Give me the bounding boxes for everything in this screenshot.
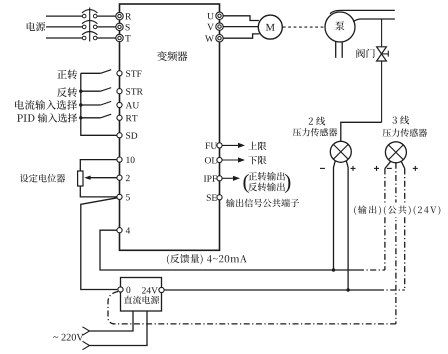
DC supply box 直流电源 [121, 278, 162, 312]
junction dot sensor- [332, 268, 335, 271]
wire 0V dashdot [108, 292, 396, 324]
terminal R [116, 12, 123, 19]
label 输出信号公共端子 [226, 199, 299, 208]
wire 24V line [164, 289, 378, 291]
arrow in L [83, 327, 90, 335]
label 2线 [309, 117, 326, 126]
wire feedback dashdot to B2 [358, 269, 385, 271]
pipe inlet [335, 42, 337, 58]
terminal RT [117, 115, 122, 120]
label 正转输出 [248, 172, 285, 181]
wire 220V L [90, 311, 134, 331]
wire L1 to switch [46, 15, 82, 17]
inverter U1 变频器 box [120, 4, 220, 250]
sign plus B2 right [413, 167, 418, 169]
wire switch to terminal [97, 15, 116, 17]
sign minus B2 [387, 167, 392, 169]
terminal 2 [117, 175, 122, 180]
terminal AU [117, 102, 122, 107]
switch K-RT wire [81, 117, 101, 119]
valve 阀门 body [377, 47, 389, 61]
wire common bus [81, 73, 117, 135]
terminal V [216, 23, 223, 30]
label 电源 [27, 22, 45, 31]
wire valve down [381, 61, 383, 122]
terminal IPF [217, 176, 222, 181]
terminal 4 [117, 228, 122, 233]
terminal 10 [117, 157, 122, 162]
label 上限 [248, 142, 266, 151]
label 输出公共24V [353, 203, 434, 218]
label 压力传感器 left [293, 128, 337, 136]
label 反转输出 [248, 183, 285, 192]
terminal U [216, 12, 223, 19]
terminal W [216, 35, 223, 42]
switch K-AU wire [81, 104, 101, 106]
wire U to motor [223, 16, 259, 21]
wire 220V N [90, 311, 148, 346]
motor M [258, 15, 282, 39]
potentiometer RP [78, 171, 83, 186]
label 电流输入选择 [15, 100, 77, 110]
switch QS 3-pole [82, 8, 97, 42]
wire 24V dashdot to B2 [378, 289, 405, 291]
paren IPF left [243, 174, 248, 193]
label 下限 [248, 156, 266, 164]
sign minus B1 [320, 167, 325, 169]
sensor B2 lead common [395, 163, 397, 324]
wire 4 feedback line [100, 230, 358, 270]
sensor B2 lead out [385, 162, 391, 169]
terminal FU [217, 143, 222, 148]
sensor B2 lead 24V [401, 162, 404, 169]
terminal STR [117, 89, 122, 94]
terminal 5 [117, 194, 122, 199]
terminal S [116, 23, 123, 30]
terminal SE [217, 195, 222, 200]
junction dot sensor+ [346, 288, 349, 291]
label 设定电位器 [20, 174, 65, 183]
terminal STF [117, 71, 122, 76]
switch K-STF blade [101, 70, 112, 74]
junction dot AU [79, 103, 82, 106]
sign plus B1 [351, 167, 356, 169]
wire wiper from 2 [90, 177, 117, 179]
arrow FU [222, 144, 239, 146]
wire switch to terminal [97, 37, 116, 39]
arrow IPF [222, 177, 234, 179]
terminal SD [117, 133, 122, 138]
switch K-RT blade [101, 114, 112, 118]
switch K-AU blade [101, 101, 112, 105]
switch K-STF wire [81, 72, 101, 74]
terminal OL [217, 157, 222, 162]
coupling shaft dashed [283, 26, 325, 28]
wiper arrow [84, 176, 90, 180]
wire V to motor [223, 26, 258, 28]
wire pipe to valve [381, 19, 383, 47]
label 直流电源 [124, 296, 159, 304]
wire pot bottom to 5 [80, 186, 117, 197]
terminal 24V [159, 287, 164, 292]
label 变频器 [157, 51, 187, 61]
junction dot STR [79, 90, 82, 93]
pump 泵 [325, 12, 355, 42]
paren IPF right [285, 174, 290, 193]
sign plus B2 left [374, 167, 379, 169]
sensor B2 3-wire [385, 142, 406, 163]
wire 10 to pot top [80, 160, 117, 171]
junction dot RT [79, 116, 82, 119]
label 反馈量 [167, 254, 247, 264]
label 压力传感器 right [383, 129, 427, 137]
wire W to motor [223, 34, 259, 38]
wire L2 to switch [46, 26, 82, 28]
pipe outlet top [330, 10, 395, 13]
wire to sensor B1 [341, 122, 382, 141]
wire 5 to DC 0V [81, 198, 118, 290]
wire L3 to switch [46, 37, 82, 39]
label 反转 [57, 87, 77, 97]
switch K-STR blade [101, 88, 112, 92]
wire switch to terminal [97, 26, 116, 28]
label PID输入选择 [17, 113, 77, 122]
sensor B1 lead - [334, 161, 336, 270]
sensor B1 lead + [346, 161, 348, 290]
label 220V [53, 334, 83, 341]
sensor B1 2-wire [330, 141, 351, 162]
pipe outlet bottom [353, 19, 395, 22]
label 正转 [57, 70, 77, 80]
terminal T [116, 34, 123, 41]
label 3线 [393, 116, 410, 125]
label 阀门 [356, 49, 374, 58]
arrow in N [83, 341, 90, 349]
arrow OL [222, 159, 239, 161]
switch K-STR wire [81, 90, 101, 92]
terminal 0 [118, 287, 123, 292]
